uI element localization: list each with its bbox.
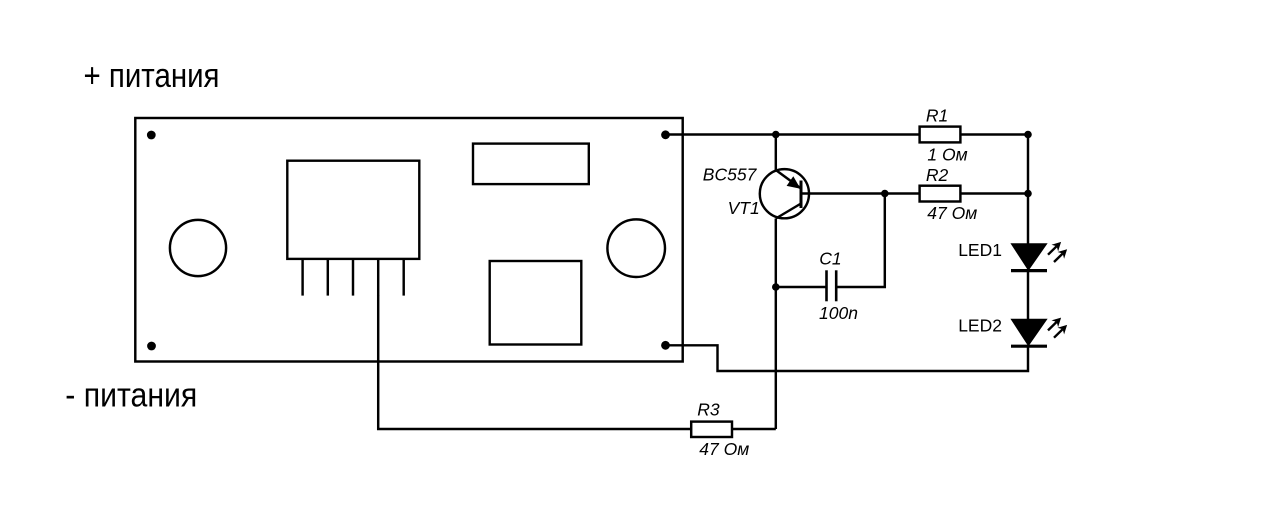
wire: IC pin 4 down to R3 wire bbox=[378, 295, 690, 429]
svg-text:R1: R1 bbox=[926, 106, 948, 126]
wire: node E down to R3 level bbox=[775, 287, 777, 429]
wire: emitter up to +V rail bbox=[775, 135, 777, 171]
pad dot top-right (node +V) bbox=[661, 130, 670, 139]
resistor R1 bbox=[920, 127, 961, 143]
LED2 light arrow 2 bbox=[1054, 325, 1067, 338]
node D junction dot bbox=[1024, 190, 1032, 198]
node C junction dot bbox=[881, 190, 889, 198]
LED2 bbox=[1011, 320, 1047, 347]
IC pin 4 bbox=[377, 260, 379, 296]
svg-text:1 Ом: 1 Ом bbox=[927, 145, 967, 165]
wire: R2 right lead to node D bbox=[961, 192, 1028, 194]
svg-text:R2: R2 bbox=[926, 165, 949, 185]
resistor R3 bbox=[691, 422, 732, 437]
transistor VT1 BC557 bbox=[760, 169, 809, 218]
svg-text:VT1: VT1 bbox=[728, 198, 760, 218]
IC pin 1 bbox=[301, 260, 303, 296]
component outline rect top bbox=[473, 144, 589, 185]
wire: base to node C bbox=[801, 192, 885, 194]
wire: R3 right lead to emitter line bbox=[733, 428, 776, 430]
LED2 light arrow 1 bbox=[1048, 318, 1061, 331]
IC module body bbox=[287, 161, 419, 259]
svg-text:100n: 100n bbox=[819, 303, 858, 323]
pad dot bottom-left bbox=[147, 342, 156, 351]
wire: emitter down from transistor to node E bbox=[775, 219, 777, 288]
svg-text:47 Ом: 47 Ом bbox=[927, 203, 977, 223]
svg-text:LED1: LED1 bbox=[958, 240, 1002, 260]
mounting hole right bbox=[607, 219, 665, 277]
wire: node B down through node D to LED1 bbox=[1027, 135, 1029, 245]
svg-text:BC557: BC557 bbox=[703, 164, 758, 184]
wire: +V rail from board pad to R1 and node A bbox=[666, 133, 919, 135]
LED1 light arrow 1 bbox=[1048, 242, 1061, 255]
svg-text:C1: C1 bbox=[819, 248, 841, 268]
node B junction dot bbox=[1024, 131, 1032, 139]
svg-text:R3: R3 bbox=[697, 400, 720, 420]
component outline rect bottom bbox=[490, 261, 582, 345]
svg-text:LED2: LED2 bbox=[958, 316, 1002, 336]
svg-text:47 Ом: 47 Ом bbox=[699, 439, 749, 459]
resistor R2 bbox=[920, 186, 961, 202]
wire: node C to R2 bbox=[885, 192, 919, 194]
wire: C1 right plate to vertical up to node C bbox=[836, 194, 885, 288]
mounting hole left bbox=[170, 220, 226, 276]
IC pin 5 bbox=[402, 260, 404, 296]
LED1 bbox=[1011, 244, 1047, 271]
LED1 light arrow 2 bbox=[1054, 249, 1067, 262]
svg-text:- питания: - питания bbox=[65, 377, 197, 415]
svg-text:+ питания: + питания bbox=[84, 57, 220, 95]
capacitor C1 bbox=[827, 270, 837, 301]
wire: R1 right lead to node B bbox=[961, 133, 1028, 135]
pad dot top-left bbox=[147, 131, 156, 140]
wire: LED1 cathode to LED2 anode bbox=[1027, 271, 1029, 320]
wire: LED2 cathode down and left along bottom to board pad bbox=[666, 345, 1029, 371]
IC pin 2 bbox=[327, 260, 329, 296]
IC pin 3 bbox=[352, 260, 354, 296]
PCB board outline bbox=[135, 118, 682, 362]
pad dot bottom-right (node -V) bbox=[661, 341, 670, 350]
node A junction dot on +V rail bbox=[772, 131, 780, 139]
wire: node E to C1 left plate bbox=[776, 286, 827, 288]
node E junction dot bbox=[772, 283, 780, 291]
